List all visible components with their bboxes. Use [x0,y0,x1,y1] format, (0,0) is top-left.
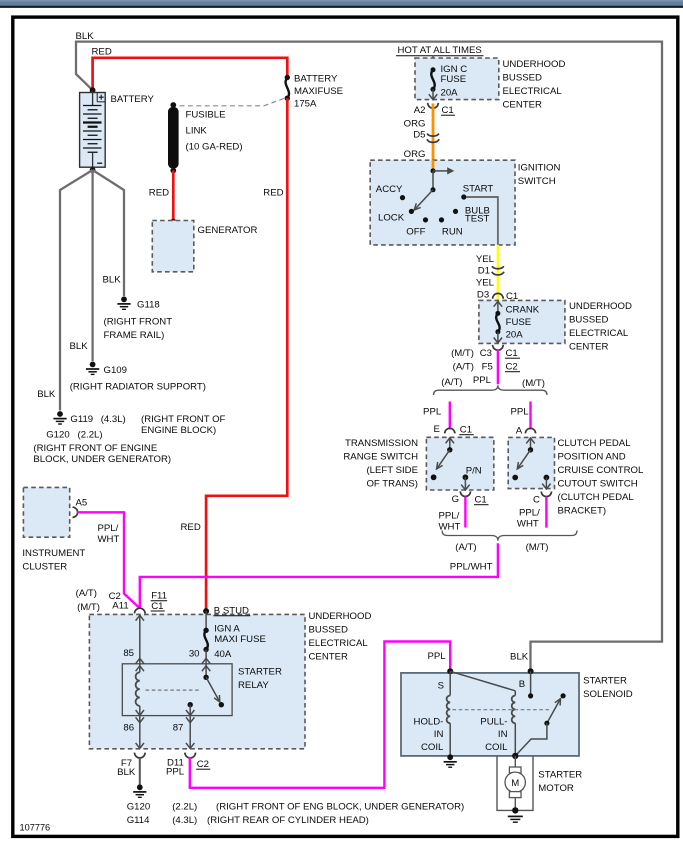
svg-text:(A/T): (A/T) [453,362,474,373]
svg-text:YEL: YEL [476,278,495,289]
svg-text:BLK: BLK [70,341,89,352]
wire F11 to relay coil [136,615,144,620]
ground G109 [90,362,96,368]
svg-text:ORG: ORG [404,149,426,160]
svg-text:F5: F5 [482,362,493,373]
connector E/C1 at trans range switch [445,428,455,433]
starter relay box [122,664,232,716]
svg-text:(RIGHT FRONT OF ENGINE: (RIGHT FRONT OF ENGINE [33,443,157,454]
svg-text:CLUSTER: CLUSTER [22,562,67,573]
wire BLK to G120/G114 [139,757,141,784]
svg-text:PPL/: PPL/ [98,523,119,534]
svg-text:BLK: BLK [76,31,95,42]
wire battery ground right (to G118) [93,170,124,296]
connector C below clutch switch [541,492,551,497]
svg-text:UNDERHOOD: UNDERHOOD [503,59,566,70]
svg-text:D5: D5 [413,130,425,141]
svg-text:BLK: BLK [37,389,56,400]
svg-text:COIL: COIL [421,742,444,753]
trans range switch internals [431,438,470,490]
wire PPL to trans range switch [449,402,451,430]
svg-text:ENGINE BLOCK): ENGINE BLOCK) [141,425,216,436]
svg-text:ELECTRICAL: ELECTRICAL [569,328,629,339]
svg-text:OF TRANS): OF TRANS) [366,479,418,490]
svg-text:FRAME RAIL): FRAME RAIL) [104,330,165,341]
connector D1 (in-line) [492,266,504,269]
brace merge A/T / M/T [442,531,577,541]
wire into IGN C fuse [432,56,434,70]
brace split A/T / M/T [434,385,548,395]
svg-text:UNDERHOOD: UNDERHOOD [309,611,372,622]
svg-text:HOT AT ALL TIMES: HOT AT ALL TIMES [398,45,482,56]
svg-text:RED: RED [263,188,283,199]
wire RED fusible link to generator [172,171,175,222]
svg-text:SOLENOID: SOLENOID [583,689,633,700]
svg-text:CENTER: CENTER [309,652,349,663]
svg-text:C3: C3 [480,348,492,359]
wire ORG into ignition switch [432,160,435,171]
relay mechanical link [146,689,201,691]
box: underhood bussed electrical center (starter relay) [89,614,305,748]
svg-text:SWITCH: SWITCH [518,176,556,187]
svg-text:STARTER: STARTER [238,667,282,678]
wire battery ground middle (to G109) [91,170,93,361]
fuse: BATTERY MAXIFUSE 175A [285,75,290,80]
svg-text:BUSSED: BUSSED [309,625,349,636]
svg-text:BUSSED: BUSSED [569,315,609,326]
wire PPL/WHT from clutch switch [545,497,547,528]
svg-text:IGN A: IGN A [214,624,240,635]
generator [152,221,194,272]
svg-text:87: 87 [173,723,184,734]
svg-text:D1: D1 [478,266,490,277]
svg-text:BLK: BLK [103,275,122,286]
svg-text:CRANK: CRANK [506,305,540,316]
svg-text:(M/T): (M/T) [451,348,474,359]
wire ORG [432,104,435,171]
generator node [170,219,176,225]
svg-text:BLK: BLK [510,652,529,663]
svg-text:G120: G120 [46,429,69,440]
svg-text:PPL/: PPL/ [519,508,540,519]
svg-text:CLUTCH PEDAL: CLUTCH PEDAL [558,438,632,449]
solenoid mechanical link [453,709,550,711]
svg-text:BATTERY: BATTERY [294,74,338,85]
svg-text:G: G [452,494,459,505]
svg-text:D3: D3 [477,290,489,301]
svg-text:86: 86 [123,723,134,734]
svg-text:C2: C2 [506,362,518,373]
svg-text:A5: A5 [76,498,88,509]
connector C1 at crank fuse box [493,293,504,298]
svg-text:P/N: P/N [466,466,482,477]
svg-text:(RIGHT FRONT OF ENG BLOCK, UND: (RIGHT FRONT OF ENG BLOCK, UNDER GENERAT… [216,802,464,813]
svg-text:40A: 40A [214,649,232,660]
svg-text:C1: C1 [151,601,163,612]
box: transmission range switch [426,437,493,490]
svg-text:(LEFT SIDE: (LEFT SIDE [366,465,418,476]
svg-text:20A: 20A [506,329,524,340]
svg-text:BLK: BLK [117,767,136,778]
svg-text:ELECTRICAL: ELECTRICAL [503,86,563,97]
svg-text:30: 30 [189,649,200,660]
relay pin 87 [186,710,194,715]
svg-text:BRACKET): BRACKET) [558,506,607,517]
svg-text:(RIGHT RADIATOR SUPPORT): (RIGHT RADIATOR SUPPORT) [70,382,206,393]
svg-text:PPL: PPL [423,406,442,417]
solenoid output node [512,753,518,759]
ground G120/G114 [137,784,143,790]
svg-text:CENTER: CENTER [503,100,543,111]
wire from START contact [467,197,498,245]
svg-text:MOTOR: MOTOR [538,783,574,794]
svg-text:FUSE: FUSE [441,74,467,85]
svg-text:(M/T): (M/T) [522,378,545,389]
hold-in coil [449,671,451,695]
svg-text:G109: G109 [104,365,127,376]
svg-text:(2.2L): (2.2L) [78,429,103,440]
svg-text:OFF: OFF [406,227,425,238]
svg-text:M: M [511,778,519,789]
svg-text:CENTER: CENTER [569,342,609,353]
svg-text:TRANSMISSION: TRANSMISSION [345,438,418,449]
svg-text:A2: A2 [414,105,426,116]
svg-text:175A: 175A [294,99,317,110]
fuse CRANK 20A [494,301,502,306]
box: underhood bussed electrical center (CRANK FUSE) [479,300,565,343]
svg-text:A: A [516,426,523,437]
clutch switch internals [512,438,550,489]
svg-text:B: B [519,679,525,690]
svg-text:PPL/WHT: PPL/WHT [450,561,493,572]
svg-text:(10 GA-RED): (10 GA-RED) [186,142,243,153]
svg-text:RED: RED [92,47,112,58]
battery positive terminal node [90,87,96,93]
connector C1 below fuse box [428,103,439,108]
svg-text:RUN: RUN [442,227,463,238]
connector C1/C2 below crank fuse [493,345,504,350]
connector D5 (in-line) [427,134,439,137]
svg-text:C1: C1 [460,425,472,436]
svg-text:TEST: TEST [465,214,490,225]
connector A5 [73,507,78,517]
relay contact [188,675,225,716]
battery negative node [90,167,96,173]
wire PPL to clutch switch [529,402,531,430]
svg-text:CUTOUT SWITCH: CUTOUT SWITCH [558,479,638,490]
wire PPL/WHT from instrument cluster [77,512,140,608]
svg-text:G118: G118 [137,300,160,311]
relay pin 86 [136,710,144,715]
svg-text:(CLUTCH PEDAL: (CLUTCH PEDAL [558,492,635,503]
svg-text:INSTRUMENT: INSTRUMENT [22,548,85,559]
wire PPL/WHT from trans range switch [464,497,466,528]
svg-text:20A: 20A [441,88,459,99]
solenoid contact [515,671,565,756]
svg-text:RED: RED [149,188,169,199]
svg-text:LOCK: LOCK [378,213,405,224]
svg-text:(M/T): (M/T) [526,542,549,553]
svg-text:YEL: YEL [476,254,495,265]
hold-in coil ground [447,754,453,760]
wire BLK: battery to right side down to solenoid B [76,42,662,672]
svg-text:(RIGHT REAR OF CYLINDER HEAD): (RIGHT REAR OF CYLINDER HEAD) [207,815,369,826]
svg-text:(RIGHT FRONT OF: (RIGHT FRONT OF [141,414,226,425]
svg-text:107776: 107776 [20,823,51,833]
fuse IGN A MAXI FUSE 40A [205,611,207,630]
window top bar [0,0,683,6]
svg-text:(A/T): (A/T) [76,588,97,599]
svg-text:COIL: COIL [485,742,508,753]
svg-text:A11: A11 [112,601,128,612]
wire PPL from crank fuse [497,349,499,384]
svg-text:ACCY: ACCY [376,184,403,195]
svg-text:G120: G120 [127,802,150,813]
svg-text:IN: IN [434,729,444,740]
svg-text:C: C [533,495,540,506]
svg-text:WHT: WHT [517,519,539,530]
svg-text:S: S [438,681,444,692]
svg-text:(A/T): (A/T) [455,542,476,553]
svg-text:MAXIFUSE: MAXIFUSE [294,86,343,97]
pull-in coil [450,671,515,691]
svg-text:PPL: PPL [166,767,185,778]
svg-text:RANGE SWITCH: RANGE SWITCH [343,452,418,463]
svg-text:HOLD-: HOLD- [414,717,444,728]
fuse IGN C 20A [431,67,436,72]
box: clutch pedal position switch [508,437,554,488]
relay coil [136,672,140,706]
svg-text:BLOCK, UNDER GENERATOR): BLOCK, UNDER GENERATOR) [33,454,171,465]
svg-text:PPL/: PPL/ [439,511,460,522]
svg-text:(M/T): (M/T) [77,602,100,613]
starter motor M [505,756,525,811]
svg-text:IN: IN [498,729,508,740]
wire RED maxifuse down and to B STUD [206,98,287,608]
wire YEL [497,245,500,301]
svg-text:C1: C1 [475,495,487,506]
svg-text:POSITION AND: POSITION AND [558,452,626,463]
B STUD node [203,608,209,614]
svg-text:C1: C1 [442,105,454,116]
svg-text:PPL: PPL [510,406,529,417]
svg-text:G119: G119 [70,414,93,425]
svg-text:PULL-: PULL- [480,717,507,728]
box: underhood bussed electrical center (IGN C FUSE) [415,58,499,100]
battery [80,90,106,167]
svg-text:PPL: PPL [427,651,446,662]
svg-text:MAXI FUSE: MAXI FUSE [214,634,266,645]
wire PPL/WHT to F11 [140,543,498,608]
solenoid S terminal [447,668,453,674]
svg-text:START: START [463,184,494,195]
svg-text:C1: C1 [506,348,518,359]
svg-text:85: 85 [123,648,134,659]
svg-text:BATTERY: BATTERY [111,94,155,105]
connectors below UBEC [135,753,146,758]
starter motor bracket [497,756,533,811]
fusible link [170,102,176,108]
box: instrument cluster [23,487,69,537]
ground G119 [57,411,63,417]
ignition switch internals [400,167,467,222]
svg-text:RELAY: RELAY [238,680,269,691]
svg-text:CRUISE CONTROL: CRUISE CONTROL [558,465,644,476]
svg-text:(2.2L): (2.2L) [172,802,197,813]
svg-text:STARTER: STARTER [583,676,627,687]
svg-text:ELECTRICAL: ELECTRICAL [309,638,369,649]
solenoid B terminal [528,668,534,674]
svg-text:G114: G114 [127,815,150,826]
starter motor ground [512,807,518,813]
wire PPL D11 to solenoid S [190,642,450,788]
svg-text:BUSSED: BUSSED [503,73,543,84]
svg-text:UNDERHOOD: UNDERHOOD [569,301,632,312]
connector G/C1 below trans range switch [460,491,470,496]
wire RED: battery to maxifuse [93,58,288,90]
svg-text:(A/T): (A/T) [441,377,462,388]
svg-text:ORG: ORG [404,118,426,129]
svg-text:RED: RED [181,522,201,533]
svg-text:FUSE: FUSE [506,317,532,328]
svg-text:E: E [434,424,440,435]
dashed tie fusible link to maxifuse node [180,98,285,105]
connector F11/C1 at UBEC [135,608,146,613]
svg-text:STARTER: STARTER [538,770,582,781]
svg-text:IGNITION: IGNITION [518,163,561,174]
svg-text:PPL: PPL [473,375,492,386]
ground G118 [121,296,127,302]
svg-text:(4.3L): (4.3L) [101,414,126,425]
svg-text:LINK: LINK [186,126,208,137]
box: starter solenoid [401,673,579,756]
svg-text:(4.3L): (4.3L) [172,815,197,826]
svg-text:C2: C2 [197,759,209,770]
svg-text:WHT: WHT [98,534,120,545]
connector A at clutch switch [525,428,535,433]
svg-text:GENERATOR: GENERATOR [198,225,258,236]
svg-text:FUSIBLE: FUSIBLE [186,110,226,121]
svg-text:B STUD: B STUD [214,606,249,617]
wire battery ground left (to G119/G120) [60,170,93,411]
box: ignition switch [370,160,515,245]
svg-text:(RIGHT FRONT: (RIGHT FRONT [104,317,173,328]
